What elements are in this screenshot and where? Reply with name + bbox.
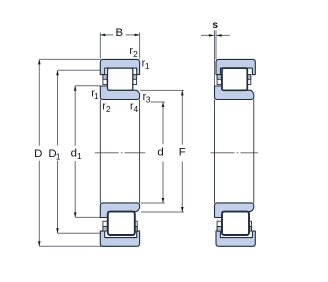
arrow d1 down <box>74 212 77 217</box>
right view bearing <box>215 59 256 246</box>
left view bearing <box>100 59 139 246</box>
cage lower-right left view <box>133 221 137 231</box>
leader d1 bottom <box>75 216 100 218</box>
dim F line <box>181 90 183 212</box>
arrow s right <box>217 34 222 37</box>
outer ring lower right view <box>216 231 255 246</box>
leader D1 bottom <box>58 232 101 234</box>
bore line left <box>214 100 216 203</box>
roller upper left view <box>108 68 133 90</box>
cage upper-right right view <box>247 75 251 85</box>
svg-text:s: s <box>212 20 218 31</box>
svg-text:2: 2 <box>106 104 111 114</box>
arrow D1 down <box>56 228 59 233</box>
svg-text:1: 1 <box>77 151 82 161</box>
arrow D down <box>38 241 41 246</box>
dimension lines group <box>39 30 230 246</box>
centerline right view <box>211 152 258 154</box>
svg-text:2: 2 <box>133 49 138 59</box>
roller upper right view <box>222 68 247 90</box>
cage upper-left left view <box>103 75 107 85</box>
bore line left <box>99 100 101 203</box>
arrow F down <box>181 207 184 212</box>
svg-text:1: 1 <box>94 91 99 101</box>
leader D bottom <box>39 245 118 247</box>
roller lower left view <box>108 212 135 235</box>
svg-text:3: 3 <box>146 95 151 105</box>
bore line right <box>253 100 255 203</box>
arrowheads <box>38 34 222 247</box>
svg-text:D: D <box>34 148 42 160</box>
arrow D1 up <box>56 70 59 75</box>
ext line s inner face <box>214 30 216 86</box>
arrow s left <box>209 34 214 37</box>
leader d top <box>151 101 165 103</box>
inner ring upper right view <box>215 86 254 100</box>
leader D top <box>39 58 100 60</box>
cage lower-left left view <box>103 221 107 231</box>
svg-text:F: F <box>179 147 186 159</box>
bore line right <box>139 100 141 203</box>
dim d1 line <box>74 86 76 218</box>
outer ring upper left view <box>100 59 139 74</box>
cage lower-right right view <box>248 221 252 231</box>
dim d line <box>162 102 164 203</box>
arrow F up <box>181 90 184 95</box>
svg-text:d: d <box>157 147 163 159</box>
ext line B left <box>99 33 101 59</box>
inner ring lower right view <box>215 203 254 218</box>
svg-text:1: 1 <box>145 61 150 71</box>
arrow B left <box>100 34 105 37</box>
arrow d down <box>162 198 165 203</box>
leader d bottom <box>141 202 165 204</box>
inner ring upper left view <box>100 86 139 100</box>
ext line B right <box>139 33 141 59</box>
centerline left view <box>95 152 146 154</box>
dim D1 line <box>57 70 59 233</box>
dim s line <box>201 34 230 36</box>
outer ring upper right view <box>216 59 255 74</box>
svg-text:4: 4 <box>133 104 138 114</box>
outer ring lower left view <box>100 231 139 246</box>
inner ring lower left view <box>100 203 139 218</box>
dim D line <box>38 59 40 246</box>
roller lower right view <box>222 212 249 235</box>
bore silhouette lines left view <box>100 100 139 203</box>
ext line s outer face <box>215 30 217 59</box>
leader D1 top <box>58 69 101 71</box>
cage upper-left right view <box>217 75 221 85</box>
cage upper-right left view <box>133 75 137 85</box>
bore silhouette lines right view <box>215 100 254 203</box>
arrow B right <box>135 34 140 37</box>
leader F top <box>140 89 184 91</box>
cage lower-left right view <box>217 221 221 231</box>
svg-text:B: B <box>115 27 123 39</box>
dim B line <box>100 34 139 36</box>
svg-text:1: 1 <box>56 152 61 162</box>
leader d1 top <box>75 85 100 87</box>
arrow d1 up <box>74 86 77 91</box>
arrow d up <box>162 102 165 107</box>
arrow D up <box>38 59 41 64</box>
leader F bottom <box>141 211 184 213</box>
